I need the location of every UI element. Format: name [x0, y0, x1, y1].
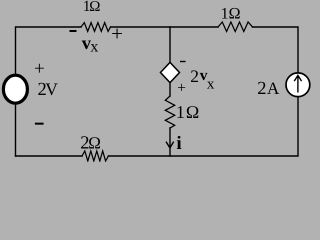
svg-text:2: 2: [257, 79, 266, 99]
svg-text:+: +: [34, 59, 45, 80]
svg-text:V: V: [45, 79, 58, 99]
svg-text:A: A: [267, 79, 280, 98]
svg-text:i: i: [176, 133, 181, 154]
svg-text:1Ω: 1Ω: [221, 6, 241, 23]
svg-text:Ω: Ω: [88, 133, 101, 152]
svg-text:+: +: [111, 21, 123, 45]
svg-text:1Ω: 1Ω: [176, 102, 200, 122]
svg-text:2: 2: [190, 66, 199, 86]
svg-text:x: x: [90, 39, 98, 56]
svg-text:x: x: [207, 77, 215, 93]
svg-text:Ω: Ω: [89, 0, 100, 15]
svg-text:+: +: [177, 80, 186, 97]
